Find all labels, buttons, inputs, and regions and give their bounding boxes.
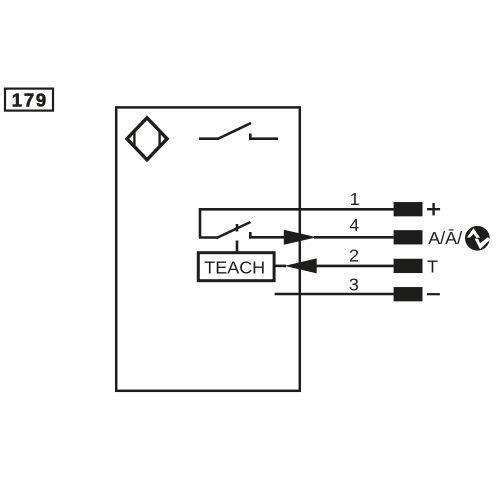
teach switch contact bbox=[199, 222, 285, 238]
output switch contact symbol (top) bbox=[199, 123, 278, 139]
actuator link from TEACH to switch bbox=[236, 241, 239, 252]
svg-text:1: 1 bbox=[350, 189, 360, 209]
svg-text:3: 3 bbox=[349, 275, 359, 295]
terminal 4 bbox=[394, 230, 423, 244]
figure number box 179 bbox=[5, 89, 53, 111]
terminal 1 bbox=[394, 202, 423, 216]
wire 4 bbox=[314, 236, 394, 239]
wire 4 arrow (output, pointing right) bbox=[284, 230, 317, 245]
svg-text:179: 179 bbox=[12, 89, 48, 110]
TEACH box bbox=[198, 253, 274, 281]
svg-text:T: T bbox=[427, 256, 438, 276]
svg-text:TEACH: TEACH bbox=[204, 257, 265, 277]
label - bbox=[427, 293, 440, 295]
teach-in icon (black circle with chevrons) bbox=[465, 226, 490, 251]
svg-text:2: 2 bbox=[349, 246, 359, 266]
wire 2 arrow (input, pointing left) bbox=[285, 258, 317, 273]
wire 1: loop from teach switch to pin 1 bbox=[200, 209, 394, 237]
label + bbox=[427, 203, 440, 215]
sensor body outline bbox=[116, 107, 300, 390]
wire 3 bbox=[275, 293, 394, 296]
wire 2 from TEACH box bbox=[274, 265, 286, 268]
terminal 3 bbox=[394, 287, 423, 301]
svg-text:4: 4 bbox=[349, 215, 359, 235]
proximity sensor diamond symbol bbox=[127, 118, 167, 160]
wire 2 bbox=[314, 265, 394, 268]
svg-text:A/Ā/: A/Ā/ bbox=[428, 228, 462, 248]
terminal 2 bbox=[394, 259, 423, 273]
